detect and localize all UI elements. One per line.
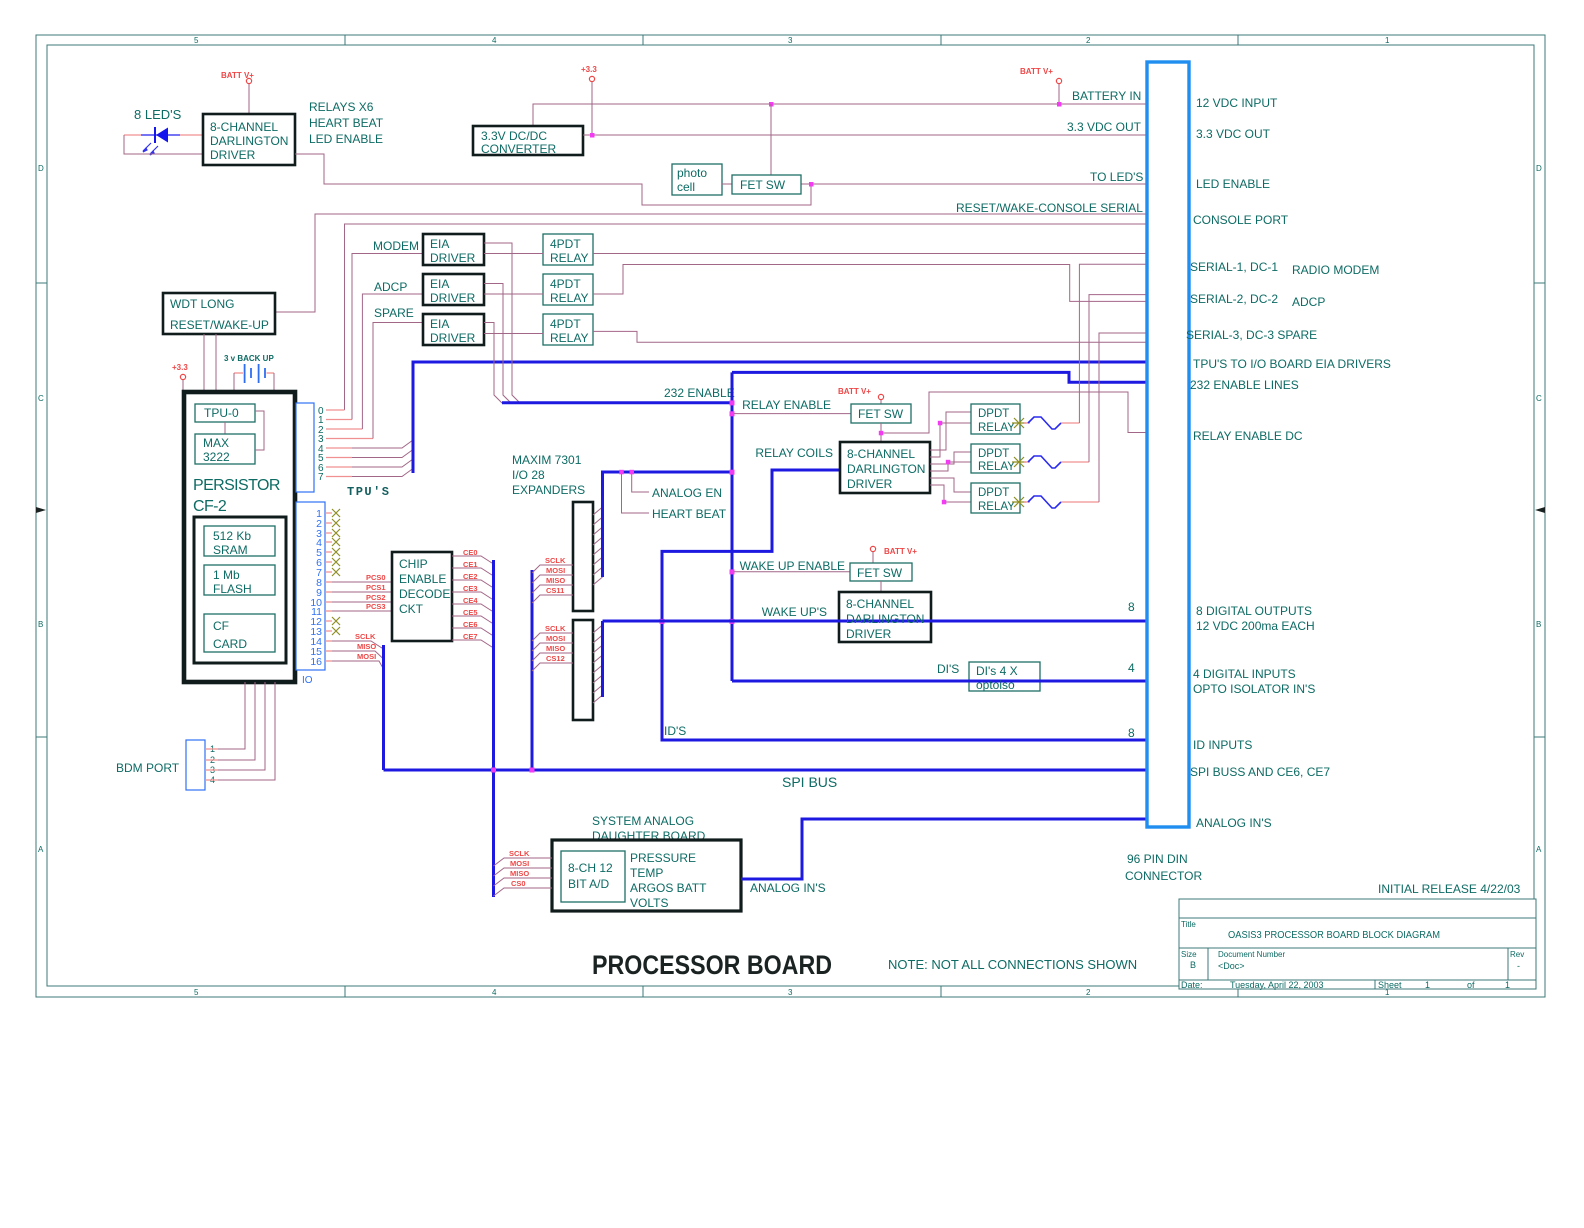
- svg-text:SCLK: SCLK: [355, 632, 376, 641]
- label MAXIM 7301 I/O 28 EXPANDERS: [512, 453, 585, 497]
- IO expander U10: [573, 502, 593, 611]
- svg-text:MISO: MISO: [357, 642, 376, 651]
- svg-text:RELAY ENABLE: RELAY ENABLE: [742, 398, 831, 412]
- DI box text: [976, 664, 1018, 692]
- svg-text:CE5: CE5: [463, 608, 478, 617]
- wire serial-1 to DIN: [593, 253, 1147, 255]
- wire TPU pin3 to EIA driver 3: [373, 323, 423, 439]
- wire PCS3 pin11 to chip enable: [325, 602, 392, 611]
- memory sub-module frame: [194, 517, 286, 663]
- svg-text:1: 1: [1385, 36, 1390, 45]
- wire TPU pin1 to EIA driver 1: [352, 254, 423, 420]
- bus SPI horizontal: [384, 769, 1148, 772]
- svg-text:PERSISTOR: PERSISTOR: [193, 477, 280, 494]
- svg-text:NOTE: NOT ALL CONNECTIONS SHOW: NOTE: NOT ALL CONNECTIONS SHOWN: [888, 957, 1137, 972]
- bus chip-enable/AD vertical: [492, 560, 495, 897]
- node ID chain junction: [660, 619, 665, 624]
- svg-text:MISO: MISO: [510, 869, 529, 878]
- wire darlington1 out6 to DPDT3: [930, 485, 971, 502]
- svg-text:SERIAL-3, DC-3 SPARE: SERIAL-3, DC-3 SPARE: [1186, 328, 1317, 342]
- svg-text:3222: 3222: [203, 450, 230, 464]
- svg-text:8 DIGITAL OUTPUTS: 8 DIGITAL OUTPUTS: [1196, 604, 1312, 618]
- svg-text:SPI BUSS AND CE6, CE7: SPI BUSS AND CE6, CE7: [1190, 765, 1330, 779]
- svg-text:BIT A/D: BIT A/D: [568, 877, 609, 891]
- svg-text:12 VDC INPUT: 12 VDC INPUT: [1196, 96, 1278, 110]
- svg-text:PCS1: PCS1: [366, 583, 386, 592]
- svg-text:CF: CF: [213, 619, 229, 633]
- wire TPU pins 4-7 to bus entries: [352, 440, 413, 477]
- svg-text:8: 8: [1128, 600, 1135, 614]
- wire CE5: [452, 608, 494, 624]
- centerline arrow right: [1535, 507, 1545, 513]
- svg-text:3.3 VDC OUT: 3.3 VDC OUT: [1196, 127, 1271, 141]
- svg-text:FET SW: FET SW: [740, 178, 786, 192]
- power BATT V+ (battery in): [1020, 67, 1062, 84]
- wire CE6: [452, 620, 494, 636]
- svg-text:-: -: [1517, 961, 1520, 971]
- svg-text:SERIAL-2, DC-2: SERIAL-2, DC-2: [1190, 292, 1278, 306]
- node TO LED'S junction: [809, 182, 814, 187]
- svg-text:RELAY: RELAY: [550, 291, 588, 305]
- svg-text:ANALOG IN'S: ANALOG IN'S: [1196, 816, 1272, 830]
- svg-text:DRIVER: DRIVER: [430, 291, 476, 305]
- svg-text:CE4: CE4: [463, 596, 478, 605]
- svg-text:3 v BACK UP: 3 v BACK UP: [224, 354, 274, 363]
- wire expander2 MISO: [532, 644, 573, 661]
- svg-text:MAX: MAX: [203, 436, 229, 450]
- svg-text:OASIS3 PROCESSOR BOARD BLOCK D: OASIS3 PROCESSOR BOARD BLOCK DIAGRAM: [1228, 930, 1440, 941]
- EIA driver U6 (modem): [423, 234, 484, 265]
- wire FET SW1 to darlington and relay-enable-dc: [881, 392, 1147, 442]
- svg-text:TPU-0: TPU-0: [204, 406, 239, 420]
- svg-text:EIA: EIA: [430, 317, 449, 331]
- label 4 DIGITAL INPUTS: [1193, 667, 1315, 696]
- svg-text:WAKE UP'S: WAKE UP'S: [762, 605, 827, 619]
- svg-text:8-CH 12: 8-CH 12: [568, 861, 613, 875]
- wire darlington1 out2 to DPDT1: [930, 423, 971, 457]
- darlington2 text: [846, 597, 924, 641]
- svg-text:of: of: [1467, 980, 1475, 990]
- node analog-en junction: [630, 470, 635, 475]
- svg-text:DI's 4 X: DI's 4 X: [976, 664, 1018, 678]
- LED D1: [124, 127, 203, 155]
- svg-text:RELAYS X6: RELAYS X6: [309, 100, 374, 114]
- wire expander1 CS11: [532, 586, 573, 603]
- 8-channel darlington driver U15 (wake ups): [839, 592, 931, 642]
- svg-text:PROCESSOR BOARD: PROCESSOR BOARD: [592, 950, 832, 980]
- svg-text:DRIVER: DRIVER: [210, 148, 256, 162]
- svg-text:Sheet: Sheet: [1378, 980, 1402, 990]
- TPU connector J1: [296, 403, 314, 492]
- svg-text:WAKE UP ENABLE: WAKE UP ENABLE: [740, 559, 845, 573]
- node expander bus on SPI: [530, 768, 535, 773]
- wire CE2: [452, 572, 494, 588]
- label SYSTEM ANALOG DAUGHTER BOARD: [592, 814, 706, 843]
- svg-text:I/O 28: I/O 28: [512, 468, 545, 482]
- bus entries expander1 outputs: [593, 507, 603, 585]
- bus digital inputs through optoiso (blue, drawn over): [732, 680, 1147, 683]
- wire CE0: [452, 548, 494, 564]
- svg-text:3.3 VDC OUT: 3.3 VDC OUT: [1067, 120, 1142, 134]
- svg-text:8 LED'S: 8 LED'S: [134, 107, 182, 122]
- wire LED return loop: [124, 135, 203, 154]
- wire BDM pin4: [205, 682, 275, 780]
- wire AD MISO: [494, 869, 553, 886]
- TPU pin numbers 0-7: [318, 406, 324, 483]
- svg-text:EIA: EIA: [430, 277, 449, 291]
- svg-text:DRIVER: DRIVER: [430, 331, 476, 345]
- bus SPI vertical from IO connector: [382, 645, 385, 770]
- wire expander1 SCLK: [532, 556, 573, 573]
- svg-text:Document Number: Document Number: [1218, 950, 1285, 959]
- zone numbers bottom: [194, 988, 1390, 997]
- DI opto isolator U16: [969, 662, 1040, 691]
- bus wake-ups to DIN (blue): [603, 620, 1148, 623]
- wire 232 enable line 1: [484, 243, 520, 403]
- svg-text:ID INPUTS: ID INPUTS: [1193, 738, 1252, 752]
- node expander1 bus junction: [730, 470, 735, 475]
- wire darlington1 out5 to DPDT3: [930, 478, 971, 492]
- svg-text:<Doc>: <Doc>: [1218, 961, 1245, 971]
- svg-text:D: D: [38, 164, 44, 173]
- DPDT relay K4: [971, 404, 1020, 434]
- svg-text:CE1: CE1: [463, 560, 478, 569]
- IO pin numbers 1-16: [310, 508, 322, 668]
- svg-text:4 DIGITAL INPUTS: 4 DIGITAL INPUTS: [1193, 667, 1296, 681]
- wire MOSI pin16 to SPI bus: [325, 652, 384, 669]
- svg-text:CE3: CE3: [463, 584, 478, 593]
- svg-text:+3.3: +3.3: [581, 65, 597, 74]
- wire heart-beat stub: [622, 472, 650, 513]
- wire MAX3222 side link: [255, 411, 264, 450]
- label RELAYS X6 HEART BEAT LED ENABLE: [309, 100, 384, 146]
- svg-text:MODEM: MODEM: [373, 239, 419, 253]
- svg-text:CKT: CKT: [399, 602, 424, 616]
- svg-text:BATT V+: BATT V+: [1020, 67, 1053, 76]
- 3.3V DC/DC converter U2: [473, 126, 583, 156]
- svg-text:MISO: MISO: [546, 644, 565, 653]
- wire EIA3 to 4PDT3: [484, 333, 543, 335]
- coil L2: [1024, 456, 1089, 468]
- svg-text:DARLINGTON: DARLINGTON: [847, 462, 925, 476]
- zone ticks right: [1534, 283, 1545, 737]
- svg-text:BATTERY IN: BATTERY IN: [1072, 89, 1141, 103]
- label PERSISTOR CF-2: [193, 477, 280, 515]
- border frame inner: [47, 45, 1534, 986]
- battery BT1 3v backup: [224, 354, 274, 392]
- EIA driver U7 (adcp): [423, 274, 484, 305]
- svg-text:C: C: [1536, 394, 1542, 403]
- svg-text:DARLINGTON: DARLINGTON: [846, 612, 924, 626]
- svg-text:8: 8: [1128, 726, 1135, 740]
- 8-channel darlington driver U13 (relay coils): [840, 442, 930, 493]
- svg-text:Rev: Rev: [1510, 950, 1524, 959]
- wire coil2 return to DIN: [1089, 295, 1147, 462]
- svg-text:1: 1: [1505, 980, 1510, 990]
- svg-text:ANALOG IN'S: ANALOG IN'S: [750, 881, 826, 895]
- WDT U4 watchdog: [163, 293, 275, 334]
- DPDT relay K6: [971, 483, 1020, 513]
- wire PCS2 pin10 to chip enable: [325, 593, 392, 602]
- node battery junction 2: [1057, 102, 1062, 107]
- zone letters right: [1536, 164, 1542, 854]
- svg-text:D: D: [1536, 164, 1542, 173]
- svg-text:cell: cell: [677, 180, 695, 194]
- bus entries expander2 outputs: [593, 625, 603, 703]
- wire photo cell to FET SW: [722, 183, 732, 185]
- wire BDM pin2: [205, 682, 255, 760]
- wire console serial from TPU pin0: [345, 224, 1148, 410]
- svg-text:C: C: [38, 394, 44, 403]
- bus expander1 outputs (blue): [603, 472, 733, 577]
- svg-text:MOSI: MOSI: [357, 652, 376, 661]
- svg-text:BDM PORT: BDM PORT: [116, 761, 180, 775]
- svg-text:SYSTEM ANALOG: SYSTEM ANALOG: [592, 814, 694, 828]
- wire PCS0 pin8 to chip enable: [325, 573, 392, 582]
- wire AD CS0: [494, 879, 553, 896]
- svg-text:96 PIN DIN: 96 PIN DIN: [1127, 852, 1188, 866]
- zone numbers top: [194, 36, 1390, 45]
- label SERIAL-1 DC-1: [1190, 260, 1379, 277]
- svg-text:RELAY: RELAY: [978, 422, 1015, 434]
- svg-text:16: 16: [310, 656, 322, 668]
- svg-text:ID'S: ID'S: [664, 724, 686, 738]
- wire analog-en stub: [632, 472, 649, 492]
- node battery junction 1: [769, 102, 774, 107]
- node relay enable junction: [730, 411, 735, 416]
- svg-text:PCS3: PCS3: [366, 602, 386, 611]
- svg-text:MISO: MISO: [546, 576, 565, 585]
- wire coil3 return to DIN: [1099, 333, 1147, 502]
- wire 3.3 VDC OUT net: [583, 134, 1147, 136]
- svg-text:PCS0: PCS0: [366, 573, 386, 582]
- svg-text:1 Mb: 1 Mb: [213, 568, 240, 582]
- svg-text:RELAY: RELAY: [978, 501, 1015, 513]
- svg-text:CE7: CE7: [463, 632, 478, 641]
- centerline arrow left: [36, 507, 46, 513]
- svg-text:B: B: [1536, 620, 1541, 629]
- wire TO LED'S net (driver output to FET SW junction to DIN): [295, 154, 1147, 205]
- wire FET SW2 to darlington2: [880, 581, 882, 592]
- svg-text:TPU'S: TPU'S: [347, 485, 391, 499]
- svg-text:IO: IO: [302, 675, 313, 686]
- svg-text:SPARE: SPARE: [374, 306, 414, 320]
- wire wake up enable: [734, 571, 850, 573]
- power BATT V+ (LED driver): [221, 71, 254, 114]
- X mark DPDT3: [1012, 497, 1026, 507]
- wire serial-2 to DIN: [593, 265, 1147, 302]
- svg-text:5: 5: [194, 988, 199, 997]
- svg-text:DPDT: DPDT: [978, 487, 1009, 499]
- svg-text:EIA: EIA: [430, 237, 449, 251]
- svg-text:RELAY ENABLE DC: RELAY ENABLE DC: [1193, 429, 1303, 443]
- svg-text:8-CHANNEL: 8-CHANNEL: [846, 597, 914, 611]
- svg-text:DRIVER: DRIVER: [846, 627, 892, 641]
- svg-text:OPTO ISOLATOR IN'S: OPTO ISOLATOR IN'S: [1193, 682, 1315, 696]
- svg-text:optoiso: optoiso: [976, 678, 1015, 692]
- TPU-0 block: [195, 404, 255, 422]
- wire WDT to persistor (2 lines): [204, 334, 216, 392]
- svg-text:FET SW: FET SW: [858, 407, 904, 421]
- svg-text:CE6: CE6: [463, 620, 478, 629]
- svg-text:CE0: CE0: [463, 548, 478, 557]
- bus analog in's (blue): [741, 819, 1147, 879]
- svg-text:MAXIM 7301: MAXIM 7301: [512, 453, 582, 467]
- svg-text:Title: Title: [1181, 920, 1196, 929]
- svg-text:DRIVER: DRIVER: [847, 477, 893, 491]
- wire CE1: [452, 560, 494, 576]
- svg-text:RESET/WAKE-UP: RESET/WAKE-UP: [170, 318, 269, 332]
- wire TPU pin2 to EIA driver 2: [362, 294, 423, 429]
- svg-text:RELAY: RELAY: [550, 251, 588, 265]
- svg-text:512 Kb: 512 Kb: [213, 529, 251, 543]
- wire reset/wake to console port: [275, 214, 1147, 312]
- svg-text:TO LED'S: TO LED'S: [1090, 170, 1143, 184]
- svg-text:8-CHANNEL: 8-CHANNEL: [210, 120, 278, 134]
- svg-text:4: 4: [492, 988, 497, 997]
- svg-text:7: 7: [318, 472, 324, 483]
- FET SW U12 (relay power): [851, 404, 911, 423]
- coil L3: [1024, 496, 1099, 508]
- wire battery net (converter input, BATT V+ to DIN): [533, 84, 1147, 126]
- bus main vertical spine (blue): [732, 372, 1147, 681]
- X mark DPDT2: [1012, 457, 1026, 467]
- svg-text:4: 4: [492, 36, 497, 45]
- TPU pin stubs 0-3: [326, 410, 373, 439]
- FET SW U14 (wake up): [850, 563, 912, 581]
- svg-text:CE2: CE2: [463, 572, 478, 581]
- BDM port connector J3: [186, 740, 205, 790]
- TPU pin stubs 4-7: [326, 448, 352, 477]
- wire MISO pin15 to SPI bus: [325, 642, 384, 659]
- svg-text:SCLK: SCLK: [545, 556, 566, 565]
- node wake up enable junction: [730, 569, 735, 574]
- svg-text:DPDT: DPDT: [978, 408, 1009, 420]
- svg-text:CS11: CS11: [546, 586, 564, 595]
- 96 pin DIN connector J4: [1147, 62, 1189, 827]
- zone letters left: [38, 164, 44, 854]
- svg-text:VOLTS: VOLTS: [630, 896, 668, 910]
- svg-text:SERIAL-1, DC-1: SERIAL-1, DC-1: [1190, 260, 1278, 274]
- svg-text:CONNECTOR: CONNECTOR: [1125, 869, 1202, 883]
- IO pin stubs no-connect 12-13: [325, 621, 332, 631]
- svg-text:MOSI: MOSI: [510, 859, 529, 868]
- node DPDT3 coil junction: [942, 500, 947, 505]
- zone ticks bottom: [345, 986, 1238, 997]
- bus 232 enable (blue): [502, 401, 732, 404]
- wire EIA2 to 4PDT2: [484, 293, 543, 295]
- svg-text:SCLK: SCLK: [545, 624, 566, 633]
- svg-text:FET SW: FET SW: [857, 566, 903, 580]
- no-connect X marks pins 12-13: [332, 617, 340, 635]
- wire TPU0 to MAX3222: [224, 422, 226, 434]
- wire CE7: [452, 632, 494, 648]
- svg-text:DECODE: DECODE: [399, 587, 450, 601]
- svg-text:FLASH: FLASH: [213, 582, 252, 596]
- svg-text:RADIO MODEM: RADIO MODEM: [1292, 263, 1379, 277]
- svg-text:CS0: CS0: [511, 879, 526, 888]
- svg-text:SCLK: SCLK: [509, 849, 530, 858]
- bus expander SPI vertical: [531, 570, 534, 770]
- svg-text:HEART BEAT: HEART BEAT: [309, 116, 384, 130]
- svg-text:RESET/WAKE-CONSOLE SERIAL: RESET/WAKE-CONSOLE SERIAL: [956, 201, 1143, 215]
- node 3.3v junction: [590, 133, 595, 138]
- wire relay enable: [734, 413, 851, 415]
- svg-text:EXPANDERS: EXPANDERS: [512, 483, 585, 497]
- svg-text:PCS2: PCS2: [366, 593, 386, 602]
- svg-text:MOSI: MOSI: [546, 566, 565, 575]
- svg-text:+3.3: +3.3: [172, 363, 188, 372]
- 8-channel darlington driver U1 (LED driver): [203, 114, 295, 165]
- power BATT V+ (wake up FET): [870, 546, 917, 563]
- svg-text:CARD: CARD: [213, 637, 247, 651]
- chip enable decode U9: [392, 552, 452, 641]
- svg-text:BATT V+: BATT V+: [838, 387, 871, 396]
- wire darlington1 out1 to DPDT1: [930, 412, 971, 450]
- FET SW U3 (LED power): [732, 175, 801, 194]
- svg-text:CF-2: CF-2: [193, 498, 227, 515]
- wire PCS1 pin9 to chip enable: [325, 583, 392, 592]
- power BATT V+ (relay FET): [838, 387, 884, 404]
- svg-text:LED ENABLE: LED ENABLE: [1196, 177, 1270, 191]
- svg-text:RELAY: RELAY: [978, 461, 1015, 473]
- svg-text:2: 2: [1086, 36, 1091, 45]
- zone ticks left: [36, 283, 47, 737]
- 4PDT relay K1: [543, 234, 593, 265]
- svg-text:3: 3: [788, 988, 793, 997]
- svg-text:3: 3: [788, 36, 793, 45]
- svg-text:PRESSURE: PRESSURE: [630, 851, 696, 865]
- svg-text:B: B: [38, 620, 43, 629]
- coil L1: [1024, 417, 1079, 429]
- svg-text:Size: Size: [1181, 950, 1197, 959]
- wire expander2 MOSI: [532, 634, 573, 651]
- svg-text:photo: photo: [677, 166, 707, 180]
- svg-text:5: 5: [194, 36, 199, 45]
- svg-text:BATT V+: BATT V+: [884, 547, 917, 556]
- 4PDT relay K3: [543, 314, 593, 345]
- 1Mb FLASH block: [204, 565, 275, 596]
- IO pin stubs no-connect 1-7: [325, 513, 332, 572]
- wire 232 enable line 3: [484, 323, 502, 404]
- label 96 PIN DIN CONNECTOR: [1125, 852, 1202, 883]
- svg-text:ANALOG EN: ANALOG EN: [652, 486, 722, 500]
- no-connect X marks pins 1-7: [332, 509, 340, 576]
- svg-text:12 VDC 200ma EACH: 12 VDC 200ma EACH: [1196, 619, 1315, 633]
- label 8 DIGITAL OUTPUTS: [1196, 604, 1315, 633]
- wire FET SW supply drop: [770, 104, 772, 175]
- wire serial-3 to DIN: [593, 331, 1147, 342]
- wire expander2 CS12: [532, 654, 573, 671]
- svg-text:232 ENABLE LINES: 232 ENABLE LINES: [1190, 378, 1299, 392]
- svg-text:DPDT: DPDT: [978, 448, 1009, 460]
- svg-text:4: 4: [1128, 661, 1135, 675]
- daughter board signal list: [630, 851, 707, 910]
- node FET SW1 output junction: [879, 431, 884, 436]
- wire expander1 MOSI: [532, 566, 573, 583]
- A/D converter U17: [561, 851, 625, 902]
- wire SCLK pin14 to SPI bus: [325, 632, 384, 649]
- svg-text:HEART BEAT: HEART BEAT: [652, 507, 727, 521]
- persistor CF-2 module U5: [184, 392, 295, 682]
- wire AD MOSI: [494, 859, 553, 876]
- wire BDM pin1: [205, 682, 245, 749]
- svg-text:Tuesday, April 22, 2003: Tuesday, April 22, 2003: [1230, 980, 1324, 990]
- wire expander2 SCLK: [532, 624, 573, 641]
- svg-text:A: A: [38, 845, 44, 854]
- MAX 3222 block: [195, 434, 255, 464]
- svg-text:CHIP: CHIP: [399, 557, 428, 571]
